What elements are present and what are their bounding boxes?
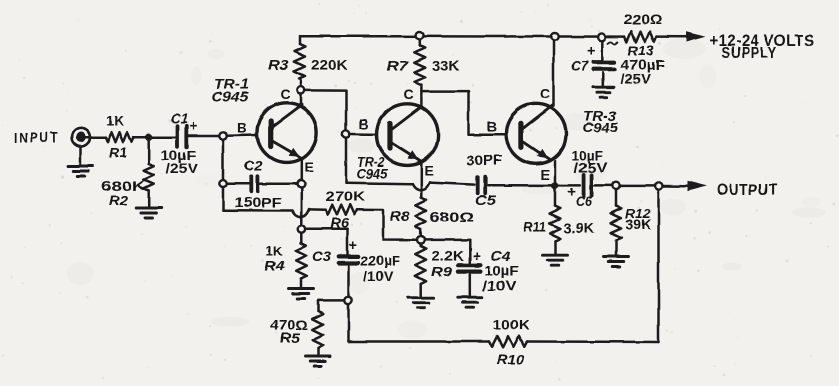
svg-text:E: E: [425, 162, 434, 178]
svg-text:R7: R7: [387, 57, 409, 73]
svg-text:R6: R6: [331, 214, 350, 230]
svg-text:R4: R4: [265, 257, 285, 273]
svg-text:B: B: [237, 119, 247, 135]
svg-text:+: +: [190, 119, 198, 135]
svg-text:B: B: [487, 118, 497, 134]
svg-text:+: +: [587, 44, 595, 60]
svg-text:R11: R11: [524, 219, 547, 235]
svg-text:R1: R1: [109, 144, 127, 160]
svg-text:1K: 1K: [106, 112, 124, 128]
svg-text:3.9K: 3.9K: [564, 220, 595, 236]
svg-text:C5: C5: [476, 192, 496, 208]
svg-text:R8: R8: [390, 208, 410, 224]
svg-text:C: C: [540, 86, 550, 102]
svg-text:OUTPUT: OUTPUT: [717, 182, 778, 199]
svg-text:C4: C4: [491, 248, 511, 264]
svg-text:33K: 33K: [433, 57, 460, 73]
svg-text:C6: C6: [576, 192, 592, 208]
svg-text:R10: R10: [497, 351, 525, 367]
svg-text:SUPPLY: SUPPLY: [722, 45, 777, 62]
svg-text:10µF: 10µF: [485, 263, 520, 279]
svg-text:220K: 220K: [311, 57, 348, 73]
svg-text:C: C: [281, 86, 291, 102]
svg-text:220Ω: 220Ω: [624, 11, 663, 27]
svg-text:C945: C945: [356, 166, 388, 181]
svg-text:/10V: /10V: [483, 278, 518, 294]
svg-text:220µF: 220µF: [361, 252, 401, 268]
svg-text:E: E: [305, 159, 314, 175]
svg-text:1K: 1K: [266, 243, 283, 259]
svg-text:C2: C2: [244, 158, 263, 174]
svg-text:R5: R5: [280, 329, 300, 345]
svg-text:C7: C7: [572, 58, 590, 74]
svg-text:C945: C945: [583, 120, 619, 135]
svg-text:39K: 39K: [626, 217, 652, 232]
svg-text:2.2K: 2.2K: [432, 248, 465, 264]
svg-text:680Ω: 680Ω: [430, 208, 475, 224]
svg-text:R3: R3: [268, 57, 289, 73]
svg-text:/25V: /25V: [166, 160, 199, 176]
svg-text:B: B: [359, 116, 369, 132]
svg-text:C1: C1: [171, 111, 188, 127]
svg-text:INPUT: INPUT: [14, 130, 60, 147]
svg-text:150PF: 150PF: [235, 194, 283, 210]
svg-text:C945: C945: [212, 89, 250, 104]
svg-text:/10V: /10V: [364, 268, 394, 284]
svg-text:R9: R9: [432, 263, 453, 279]
svg-text:/25V: /25V: [574, 159, 609, 175]
svg-text:+: +: [349, 238, 357, 254]
svg-text:C3: C3: [312, 248, 331, 264]
svg-text:30PF: 30PF: [467, 152, 503, 168]
svg-text:C: C: [404, 87, 414, 103]
svg-text:E: E: [541, 167, 550, 183]
svg-text:/25V: /25V: [621, 71, 652, 87]
svg-text:R2: R2: [109, 192, 128, 208]
svg-text:270K: 270K: [326, 188, 366, 204]
svg-text:100K: 100K: [493, 316, 530, 332]
svg-text:+: +: [473, 249, 481, 265]
